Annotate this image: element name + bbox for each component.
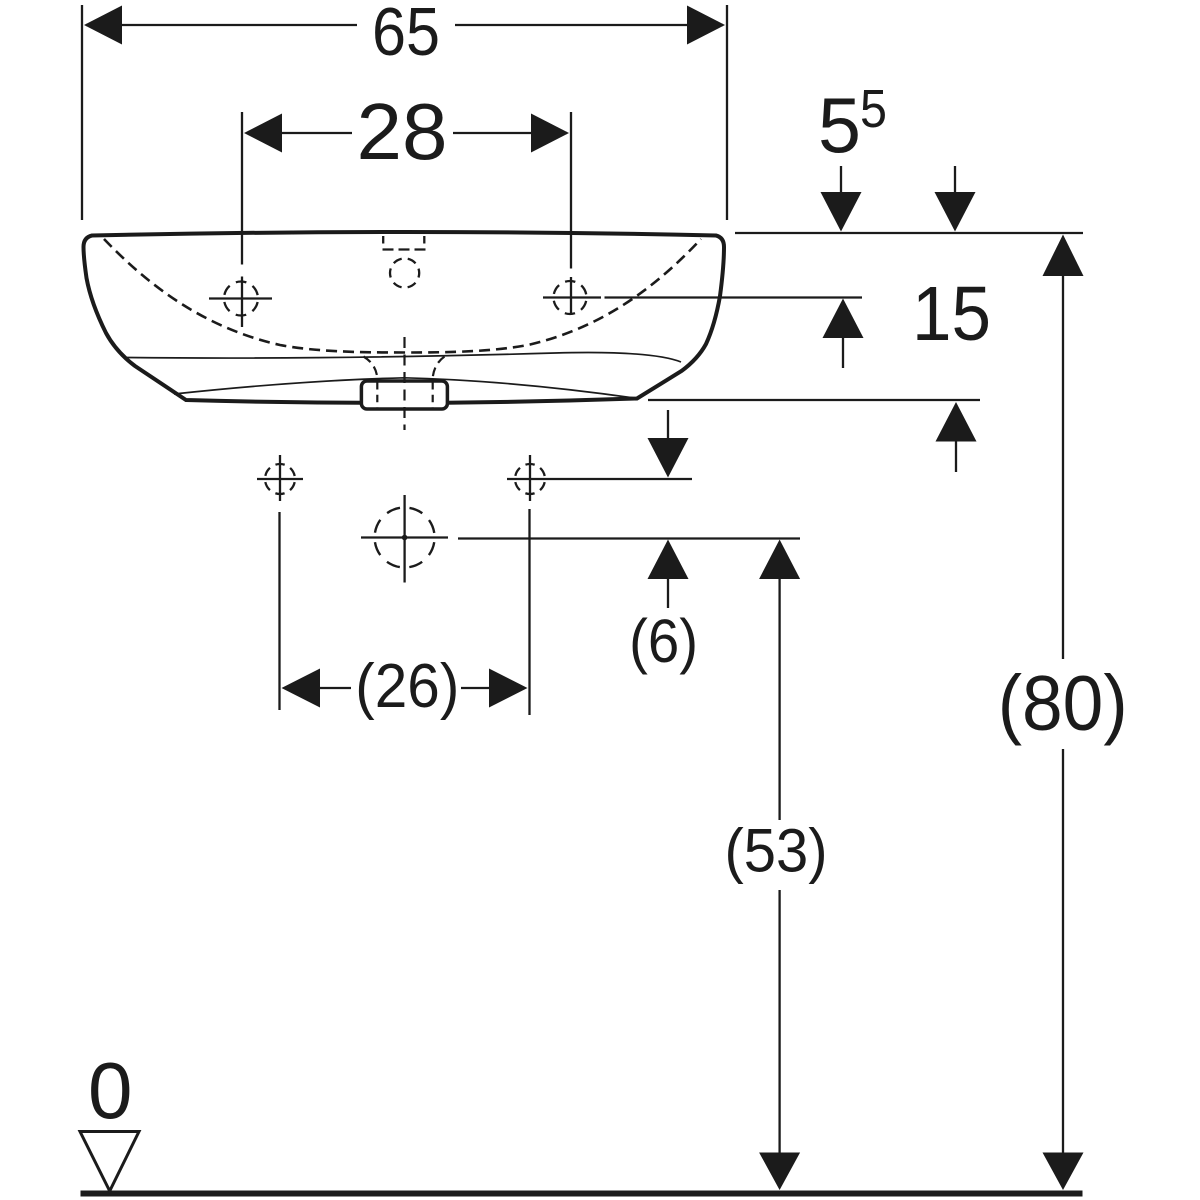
arrow 5.5 down at top reference [821, 166, 862, 232]
dimension line 65 [86, 24, 723, 26]
extension line 28 left [241, 112, 243, 327]
basin inner rim dashed curve [104, 239, 701, 353]
lower left fixing hole [257, 455, 303, 501]
drain outlet box [361, 381, 447, 409]
arrowhead 26 left [282, 669, 321, 708]
drain funnel dashed left [364, 357, 378, 409]
svg-text:0: 0 [88, 1046, 133, 1135]
sink outline [84, 232, 725, 403]
datum zero triangle [80, 1132, 139, 1192]
overflow slot [383, 236, 426, 250]
extension line 26 left [278, 512, 280, 710]
arrowhead 28 right [531, 114, 569, 153]
arrow 15 down at top reference [935, 166, 976, 232]
arrow 6 up [648, 540, 689, 609]
upper right fixing hole [554, 281, 587, 314]
label (6) [629, 607, 698, 675]
dimension 80 vertical line lower [1043, 749, 1084, 1190]
lower interior line [174, 378, 638, 399]
reference line basin bottom level [648, 399, 980, 401]
siphon crosshair [361, 495, 448, 583]
reference line lower fixing holes level [507, 478, 692, 480]
reference line tap hole level [543, 296, 862, 298]
upper left fixing hole [209, 282, 272, 316]
label (26) [355, 652, 459, 721]
reference line siphon level [458, 537, 800, 539]
svg-text:65: 65 [372, 0, 440, 70]
extension line 28 right [570, 112, 572, 315]
arrowhead 28 left [244, 114, 282, 153]
extension line 65 left [81, 5, 83, 220]
arrow 5.5 up at tap hole level [823, 299, 864, 369]
arrowhead 26 right [489, 669, 528, 708]
floor line [81, 1191, 1083, 1197]
svg-text:15: 15 [912, 271, 991, 357]
apron top interior line [126, 352, 681, 362]
extension line 65 right [726, 5, 728, 220]
label (80) [998, 659, 1128, 747]
svg-text:5: 5 [860, 79, 887, 139]
lower right fixing hole [515, 455, 545, 501]
svg-text:28: 28 [357, 87, 448, 176]
label 5 superscript 5 [818, 79, 887, 169]
arrowhead 65 left [84, 6, 122, 45]
dimension line 28 [248, 132, 567, 134]
dimension 53 vertical line upper [759, 540, 800, 821]
dimension line 26 [320, 687, 489, 689]
svg-text:5: 5 [818, 81, 861, 169]
label 15 [912, 271, 991, 357]
siphon hole dashed circle [375, 508, 435, 568]
siphon center dot [402, 535, 408, 541]
reference line basin top level [735, 232, 1083, 234]
label 0 [88, 1046, 133, 1135]
svg-text:(26): (26) [355, 652, 459, 721]
arrowhead 65 right [687, 6, 725, 45]
label 28 [357, 87, 448, 176]
extension line 26 right [528, 509, 530, 715]
arrow 15 up at basin bottom level [936, 402, 977, 472]
svg-text:(80): (80) [998, 659, 1128, 747]
drain centerline dashed [403, 337, 405, 430]
arrow 6 down [648, 410, 689, 478]
svg-text:(53): (53) [725, 817, 828, 886]
dimension 80 vertical line upper [1043, 235, 1084, 660]
svg-text:(6): (6) [629, 607, 698, 675]
drain funnel dashed right [433, 357, 445, 409]
tap hole dashed circle [390, 258, 419, 287]
label 65 [372, 0, 440, 70]
label (53) [725, 817, 828, 886]
dimension 53 vertical line lower [759, 890, 800, 1190]
